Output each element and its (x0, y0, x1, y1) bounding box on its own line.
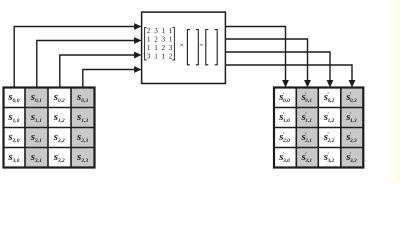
svg-text:1: 1 (154, 44, 158, 52)
svg-text:1: 1 (154, 53, 158, 61)
svg-text:2: 2 (169, 53, 173, 61)
svg-text:3: 3 (169, 44, 173, 52)
svg-text:2: 2 (154, 36, 158, 44)
svg-text:1: 1 (169, 36, 173, 44)
svg-text:1: 1 (147, 44, 151, 52)
svg-text:3: 3 (147, 53, 151, 61)
svg-text:3: 3 (154, 27, 158, 35)
svg-text:1: 1 (162, 27, 166, 35)
svg-text:1: 1 (147, 36, 151, 44)
svg-text:3: 3 (162, 36, 166, 44)
svg-text:=: = (199, 40, 203, 49)
svg-text:1: 1 (169, 27, 173, 35)
svg-text:1: 1 (162, 53, 166, 61)
svg-text:2: 2 (147, 27, 151, 35)
svg-text:2: 2 (162, 44, 166, 52)
svg-text:×: × (180, 40, 184, 49)
